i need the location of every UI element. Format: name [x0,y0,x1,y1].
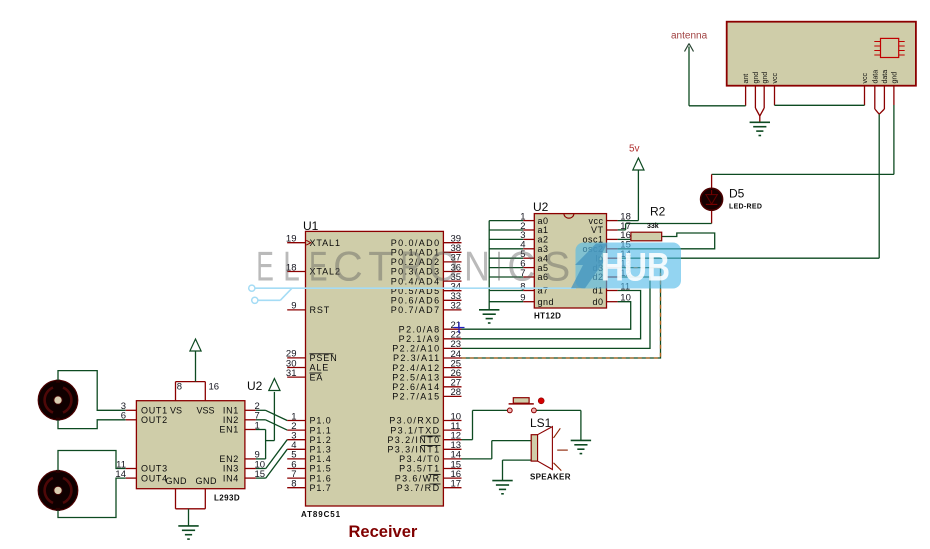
svg-text:HUB: HUB [601,246,670,290]
svg-text:OUT3: OUT3 [141,464,168,474]
svg-text:5v: 5v [629,144,640,155]
svg-text:P1.0: P1.0 [310,416,332,426]
svg-text:C: C [507,243,535,290]
svg-text:P1.3: P1.3 [310,445,332,455]
svg-text:U1: U1 [303,219,319,233]
svg-text:GND: GND [196,476,218,486]
svg-text:8: 8 [291,479,296,490]
svg-text:vcc: vcc [862,73,869,84]
svg-text:antenna: antenna [671,31,708,42]
svg-text:N: N [464,243,490,290]
svg-text:HT12D: HT12D [534,312,561,321]
svg-text:P1.6: P1.6 [310,473,332,483]
svg-text:R: R [400,243,423,290]
svg-text:ALE: ALE [310,363,330,373]
svg-text:P1.1: P1.1 [310,425,332,435]
svg-text:P3.0/RXD: P3.0/RXD [389,416,440,426]
svg-text:P1.7: P1.7 [310,483,332,493]
svg-text:32: 32 [451,301,462,312]
svg-text:PSEN: PSEN [310,353,338,363]
svg-text:I: I [496,243,502,290]
svg-text:OUT1: OUT1 [141,406,168,416]
svg-text:IN3: IN3 [223,464,239,474]
svg-text:AT89C51: AT89C51 [301,510,341,519]
svg-text:E: E [309,243,328,290]
svg-text:GND: GND [166,476,188,486]
svg-text:T: T [368,243,392,290]
svg-text:VS: VS [170,406,182,416]
svg-text:ant: ant [743,74,750,84]
svg-text:gnd: gnd [753,72,760,84]
svg-text:S: S [543,243,570,290]
svg-text:31: 31 [286,368,297,379]
svg-text:P3.4/T0: P3.4/T0 [399,454,440,464]
svg-text:P0.7/AD7: P0.7/AD7 [391,305,441,315]
svg-text:17: 17 [451,479,462,490]
svg-text:9: 9 [291,301,296,312]
svg-text:LS1: LS1 [530,416,552,430]
svg-text:Receiver: Receiver [349,523,418,541]
svg-text:IN1: IN1 [223,406,239,416]
svg-text:IN4: IN4 [223,473,239,483]
svg-text:d0: d0 [592,297,603,307]
svg-text:vcc: vcc [772,73,779,84]
svg-text:P1.5: P1.5 [310,464,332,474]
svg-text:gnd: gnd [892,72,899,84]
svg-text:33k: 33k [647,223,659,230]
svg-text:P2.2/A10: P2.2/A10 [392,344,440,354]
svg-text:L293D: L293D [214,494,240,503]
svg-text:P0.6/AD6: P0.6/AD6 [391,296,441,306]
svg-text:R2: R2 [650,205,666,219]
svg-text:C: C [333,243,363,290]
svg-text:U2: U2 [247,379,263,393]
svg-text:P2.3/A11: P2.3/A11 [393,353,441,363]
svg-text:P3.5/T1: P3.5/T1 [399,464,440,474]
svg-text:LED-RED: LED-RED [729,204,762,211]
svg-text:EN2: EN2 [219,454,239,464]
svg-text:O: O [429,243,458,290]
svg-text:IN2: IN2 [223,415,239,425]
svg-text:RST: RST [310,305,331,315]
svg-text:data: data [882,70,889,84]
svg-text:U2: U2 [533,200,549,214]
svg-text:E: E [256,243,274,290]
svg-text:D5: D5 [729,187,745,201]
svg-text:P2.6/A14: P2.6/A14 [392,382,440,392]
svg-text:EN1: EN1 [219,425,239,435]
svg-text:P1.2: P1.2 [310,435,332,445]
svg-text:P2.5/A13: P2.5/A13 [392,372,440,382]
svg-text:VSS: VSS [197,406,215,416]
svg-text:EA: EA [310,372,324,382]
svg-text:P1.4: P1.4 [310,454,332,464]
svg-text:16: 16 [209,382,220,393]
svg-text:P2.4/A12: P2.4/A12 [392,363,440,373]
svg-text:OUT4: OUT4 [141,473,168,483]
svg-text:L: L [283,243,300,290]
svg-text:data: data [872,70,879,84]
svg-text:gnd: gnd [762,72,769,84]
svg-text:SPEAKER: SPEAKER [530,473,571,482]
svg-text:gnd: gnd [538,297,555,307]
svg-text:P2.1/A9: P2.1/A9 [399,334,441,344]
svg-text:8: 8 [177,382,182,393]
svg-text:OUT2: OUT2 [141,415,168,425]
svg-text:28: 28 [451,387,462,398]
svg-text:P2.0/A8: P2.0/A8 [399,324,441,334]
svg-text:P3.1/TXD: P3.1/TXD [390,425,440,435]
svg-text:P2.7/A15: P2.7/A15 [392,392,440,402]
